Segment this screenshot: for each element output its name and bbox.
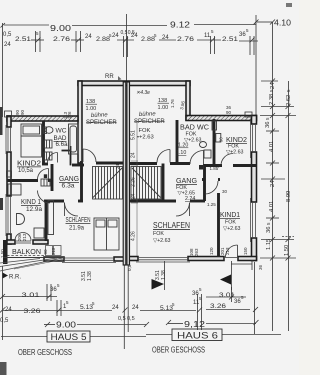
svg-text:263: 263 [194, 248, 199, 256]
svg-text:0,5: 0,5 [3, 32, 12, 38]
svg-text:90: 90 [226, 110, 232, 115]
svg-text:6.3a: 6.3a [62, 183, 76, 190]
svg-text:FOK: FOK [225, 220, 236, 226]
svg-text:4.01: 4.01 [269, 141, 275, 152]
svg-text:1.50: 1.50 [0, 249, 5, 258]
svg-text:1.25: 1.25 [207, 202, 216, 207]
svg-text:BAD WC: BAD WC [180, 125, 209, 132]
svg-text:150: 150 [243, 247, 248, 255]
svg-text:2.51: 2.51 [15, 37, 32, 43]
svg-text:HAUS 5: HAUS 5 [51, 332, 87, 342]
svg-text:4.01: 4.01 [269, 201, 275, 212]
svg-text:bühne: bühne [91, 112, 109, 119]
svg-text:36: 36 [266, 227, 272, 233]
svg-text:2.76: 2.76 [177, 37, 195, 43]
svg-text:OBER GESCHOSS: OBER GESCHOSS [18, 348, 72, 357]
svg-text:90: 90 [219, 137, 224, 142]
svg-text:▽+2.63: ▽+2.63 [153, 238, 171, 244]
svg-text:BALKON: BALKON [12, 249, 41, 256]
svg-text:4.10: 4.10 [274, 19, 292, 28]
svg-text:1.00: 1.00 [86, 106, 97, 112]
svg-text:5: 5 [218, 165, 220, 169]
svg-text:1.00: 1.00 [158, 105, 169, 111]
svg-text:2.24: 2.24 [185, 196, 195, 202]
svg-text:24: 24 [85, 34, 92, 40]
svg-text:9,12: 9,12 [184, 319, 205, 329]
svg-text:3.26: 3.26 [210, 304, 227, 310]
svg-text:0,5: 0,5 [127, 316, 135, 322]
svg-text:213: 213 [225, 247, 230, 255]
svg-text:1.10: 1.10 [176, 150, 186, 156]
svg-text:KIND 1: KIND 1 [21, 197, 41, 206]
svg-text:8.99: 8.99 [286, 191, 292, 202]
svg-text:✕4.3e: ✕4.3e [136, 90, 150, 96]
svg-text:0,5: 0,5 [121, 30, 128, 36]
svg-text:90: 90 [43, 249, 48, 255]
svg-text:9.12: 9.12 [170, 20, 190, 30]
svg-text:GANG: GANG [176, 176, 197, 185]
svg-text:bühne: bühne [139, 111, 157, 118]
svg-text:3.26: 3.26 [24, 309, 42, 315]
svg-text:30: 30 [222, 189, 228, 194]
svg-text:24: 24 [115, 163, 120, 169]
svg-text:R.R.: R.R. [9, 275, 21, 281]
svg-text:9.00: 9.00 [50, 23, 71, 33]
svg-text:24: 24 [4, 42, 11, 48]
svg-text:2.26: 2.26 [131, 177, 137, 187]
svg-text:HAUS 6: HAUS 6 [177, 331, 218, 341]
svg-text:24: 24 [5, 307, 12, 313]
svg-text:24: 24 [112, 305, 119, 311]
svg-text:5.51: 5.51 [131, 130, 137, 140]
svg-text:4.26: 4.26 [131, 231, 137, 241]
svg-text:SPEICHER: SPEICHER [134, 119, 165, 125]
svg-text:24: 24 [131, 33, 138, 39]
svg-text:1.50: 1.50 [284, 245, 290, 256]
svg-text:21.9a: 21.9a [69, 225, 85, 232]
svg-text:126: 126 [67, 111, 72, 119]
svg-text:0,5: 0,5 [0, 318, 9, 324]
svg-text:1.38: 1.38 [87, 271, 93, 281]
svg-text:2.62: 2.62 [286, 95, 292, 106]
svg-text:36: 36 [258, 264, 263, 270]
svg-text:2.51: 2.51 [222, 37, 239, 43]
svg-text:213: 213 [22, 233, 27, 241]
svg-text:▽+2.63: ▽+2.63 [223, 226, 241, 232]
svg-text:FOK: FOK [153, 231, 164, 237]
svg-text:24: 24 [112, 33, 119, 39]
svg-text:•+2.63: •+2.63 [137, 135, 154, 141]
svg-text:▽+2.63: ▽+2.63 [226, 150, 244, 156]
svg-text:24: 24 [131, 193, 137, 199]
svg-text:6.6a: 6.6a [56, 141, 69, 148]
svg-text:0,5: 0,5 [118, 316, 126, 322]
svg-text:120: 120 [209, 247, 214, 255]
svg-text:SPEICHER: SPEICHER [86, 120, 117, 126]
svg-text:3.01: 3.01 [22, 293, 41, 299]
svg-text:1.20: 1.20 [178, 143, 188, 149]
svg-text:10,5a: 10,5a [18, 167, 34, 174]
svg-text:OBER GESCHOSS: OBER GESCHOSS [152, 346, 205, 355]
svg-text:24: 24 [132, 305, 139, 311]
svg-text:90: 90 [20, 109, 25, 115]
svg-text:11: 11 [204, 33, 211, 39]
svg-text:2.76: 2.76 [53, 37, 71, 43]
svg-text:SCHLAFEN: SCHLAFEN [66, 215, 91, 224]
svg-text:FOK: FOK [139, 128, 151, 134]
svg-text:12.9a: 12.9a [26, 206, 43, 213]
svg-text:1.38: 1.38 [161, 270, 167, 280]
svg-text:SCHLAFEN: SCHLAFEN [153, 220, 190, 230]
svg-text:24: 24 [131, 152, 137, 158]
svg-text:36: 36 [265, 122, 271, 128]
svg-text:2.38: 2.38 [269, 94, 275, 105]
svg-text:1.76: 1.76 [170, 99, 175, 108]
svg-text:24: 24 [162, 35, 169, 41]
svg-text:RR: RR [105, 74, 114, 80]
svg-text:KIND1: KIND1 [220, 212, 240, 219]
svg-text:213: 213 [51, 247, 56, 255]
svg-text:0,5: 0,5 [127, 264, 132, 271]
svg-text:WC: WC [56, 128, 67, 135]
svg-text:9.00: 9.00 [56, 320, 76, 330]
